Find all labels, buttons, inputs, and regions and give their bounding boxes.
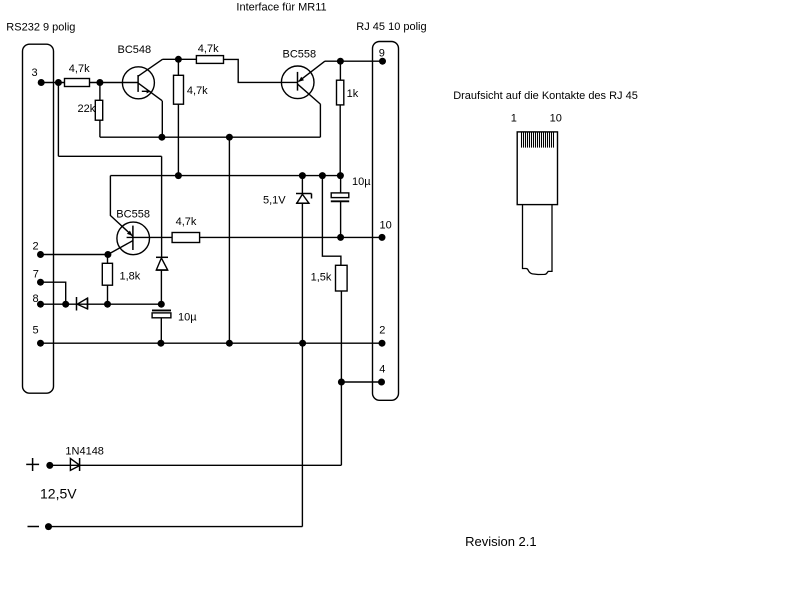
svg-text:1N4148: 1N4148 — [65, 445, 104, 457]
wire R3 top lead — [177, 59, 179, 75]
wire rail left down to Q3 emitter — [110, 176, 132, 237]
svg-text:12,5V: 12,5V — [40, 486, 77, 502]
resistor R2 4,7k (top) — [196, 56, 223, 64]
wire horizontal y=137 — [100, 136, 321, 138]
node R1-right junction — [96, 79, 103, 86]
resistor R8 1,5k — [336, 265, 348, 291]
wire 1,5k bottom to plus wire — [340, 291, 342, 465]
node cap C2 top junction — [158, 301, 165, 308]
svg-text:2: 2 — [33, 241, 39, 253]
zener diode Z1 5,1V — [296, 176, 312, 204]
pin 4 dot — [378, 379, 385, 386]
RJ45 plug contacts comb — [522, 133, 554, 148]
transistor Q2 BC558 (upper) — [281, 61, 325, 104]
svg-text:Revision 2.1: Revision 2.1 — [465, 534, 537, 549]
svg-text:10: 10 — [550, 113, 562, 125]
resistor R3 4,7k (vertical) — [174, 75, 184, 104]
wire right along y=156 — [58, 155, 161, 157]
RJ45 plug top view head — [517, 132, 557, 205]
pin 9 dot — [379, 58, 386, 65]
svg-text:1,5k: 1,5k — [311, 272, 332, 284]
wire pin3 to R1 — [41, 82, 64, 84]
node cap C1 junction — [337, 172, 344, 179]
wire pin8 row — [41, 303, 162, 305]
wire pin3 down — [57, 83, 59, 157]
wire BC558 emitter to pin9 — [325, 60, 383, 62]
svg-text:3: 3 — [32, 67, 38, 79]
minus terminal — [28, 526, 40, 528]
diode D1 (pin8 row) — [77, 297, 88, 311]
svg-text:BC548: BC548 — [118, 44, 152, 56]
svg-text:4,7k: 4,7k — [187, 85, 208, 97]
svg-text:7: 7 — [33, 269, 39, 281]
node 1,8k bottom junction — [104, 301, 111, 308]
wire plus row — [50, 464, 342, 466]
svg-text:BC558: BC558 — [116, 208, 150, 220]
wire 1,8k top lead — [107, 255, 109, 264]
resistor R6 4,7k (lower) — [172, 233, 200, 243]
pin 10 dot — [379, 234, 386, 241]
svg-text:4,7k: 4,7k — [198, 43, 219, 55]
wire BC548 emitter down — [161, 101, 163, 137]
wire R1 to BC548 base — [90, 82, 139, 84]
node plus dot — [46, 462, 53, 469]
node pin3 junction — [55, 79, 62, 86]
svg-text:2: 2 — [379, 325, 385, 337]
node branch junction y137 — [226, 134, 233, 141]
wire 1k bottom lead — [339, 105, 341, 176]
wire rail y=176 — [110, 175, 340, 177]
node branch bottom junction — [226, 340, 233, 347]
node minus dot — [45, 523, 52, 530]
svg-text:4: 4 — [379, 364, 385, 376]
svg-text:4,7k: 4,7k — [69, 63, 90, 75]
wire R6 to pin10 — [200, 236, 382, 238]
diode D3 1N4148 — [70, 458, 80, 471]
resistor R4 22k — [95, 100, 102, 120]
svg-text:1k: 1k — [347, 88, 359, 100]
pin 8 dot — [37, 301, 44, 308]
svg-text:BC558: BC558 — [283, 48, 317, 60]
RS232 connector body — [23, 44, 54, 393]
resistor R5 1k — [337, 80, 344, 105]
wire R2 right to BC558 base — [224, 59, 298, 82]
wire BC548 collector to R2 — [163, 58, 197, 60]
wire ground rail y=343 — [41, 342, 383, 344]
RJ45 plug boot — [523, 205, 553, 275]
transistor Q1 BC548 — [122, 59, 162, 101]
wire minus row — [49, 526, 303, 528]
svg-text:5: 5 — [33, 324, 39, 336]
node C2 bottom junction — [157, 340, 164, 347]
svg-text:9: 9 — [379, 48, 385, 60]
svg-text:10: 10 — [380, 220, 392, 232]
wire D2 to pin8 row — [160, 270, 162, 304]
wire down to diode D2 — [161, 156, 163, 257]
wire branch vertical x=229 — [228, 137, 230, 343]
svg-text:RJ 45 10 polig: RJ 45 10 polig — [356, 21, 426, 33]
RJ45 connector body — [373, 42, 399, 401]
wire pin4 — [341, 381, 381, 383]
svg-text:Interface für MR11: Interface für MR11 — [236, 1, 326, 13]
wire 1,5k branch — [322, 176, 341, 266]
node 1,8k top junction — [104, 251, 111, 258]
node zener rail junction — [299, 340, 306, 347]
wire 1,8k bottom lead — [107, 285, 109, 304]
capacitor C2 10µ (lower) — [152, 310, 171, 343]
wire R3 bottom lead — [177, 104, 179, 175]
capacitor C1 10µ — [331, 176, 349, 238]
svg-text:22k: 22k — [78, 103, 96, 115]
node zener junction — [299, 172, 306, 179]
svg-text:10µ: 10µ — [352, 176, 371, 188]
wire zener down to minus — [301, 203, 303, 526]
node 1k top junction — [337, 58, 344, 65]
svg-text:10µ: 10µ — [178, 312, 197, 324]
resistor R1 4,7k — [65, 79, 90, 87]
svg-text:4,7k: 4,7k — [176, 216, 197, 228]
diode D2 (below Q3) — [156, 257, 168, 270]
pin 3 dot — [38, 79, 45, 86]
wire 22k top lead — [99, 83, 101, 101]
node emitter junction y137 — [158, 134, 165, 141]
wire base row y=237.4 — [127, 236, 173, 238]
node R3 bottom junction — [175, 172, 182, 179]
pin 2 dot (RJ45) — [379, 340, 386, 347]
node pin7 junction — [62, 301, 69, 308]
svg-text:Draufsicht auf die Kontakte de: Draufsicht auf die Kontakte des RJ 45 — [453, 90, 638, 102]
resistor R7 1,8k — [102, 263, 112, 285]
wire 1k top lead — [339, 61, 341, 80]
wire pin2 — [41, 254, 108, 256]
svg-text:5,1V: 5,1V — [263, 195, 286, 207]
pin 2 dot — [37, 251, 44, 258]
svg-text:1: 1 — [511, 113, 517, 125]
transistor Q3 BC558 (lower) — [108, 222, 150, 255]
svg-text:1,8k: 1,8k — [120, 271, 141, 283]
svg-text:RS232 9 polig: RS232 9 polig — [6, 21, 75, 33]
node cap C1 bottom junction — [337, 234, 344, 241]
node pin4 junction — [338, 379, 345, 386]
pin 5 dot — [37, 340, 44, 347]
node 1,5k branch junction — [319, 172, 326, 179]
wire BC558 collector down — [319, 104, 321, 137]
pin 7 dot — [37, 279, 44, 286]
node collector junction — [175, 56, 182, 63]
plus terminal — [26, 458, 39, 471]
wire 22k bottom lead — [99, 120, 101, 137]
wire pin7 — [41, 282, 66, 304]
